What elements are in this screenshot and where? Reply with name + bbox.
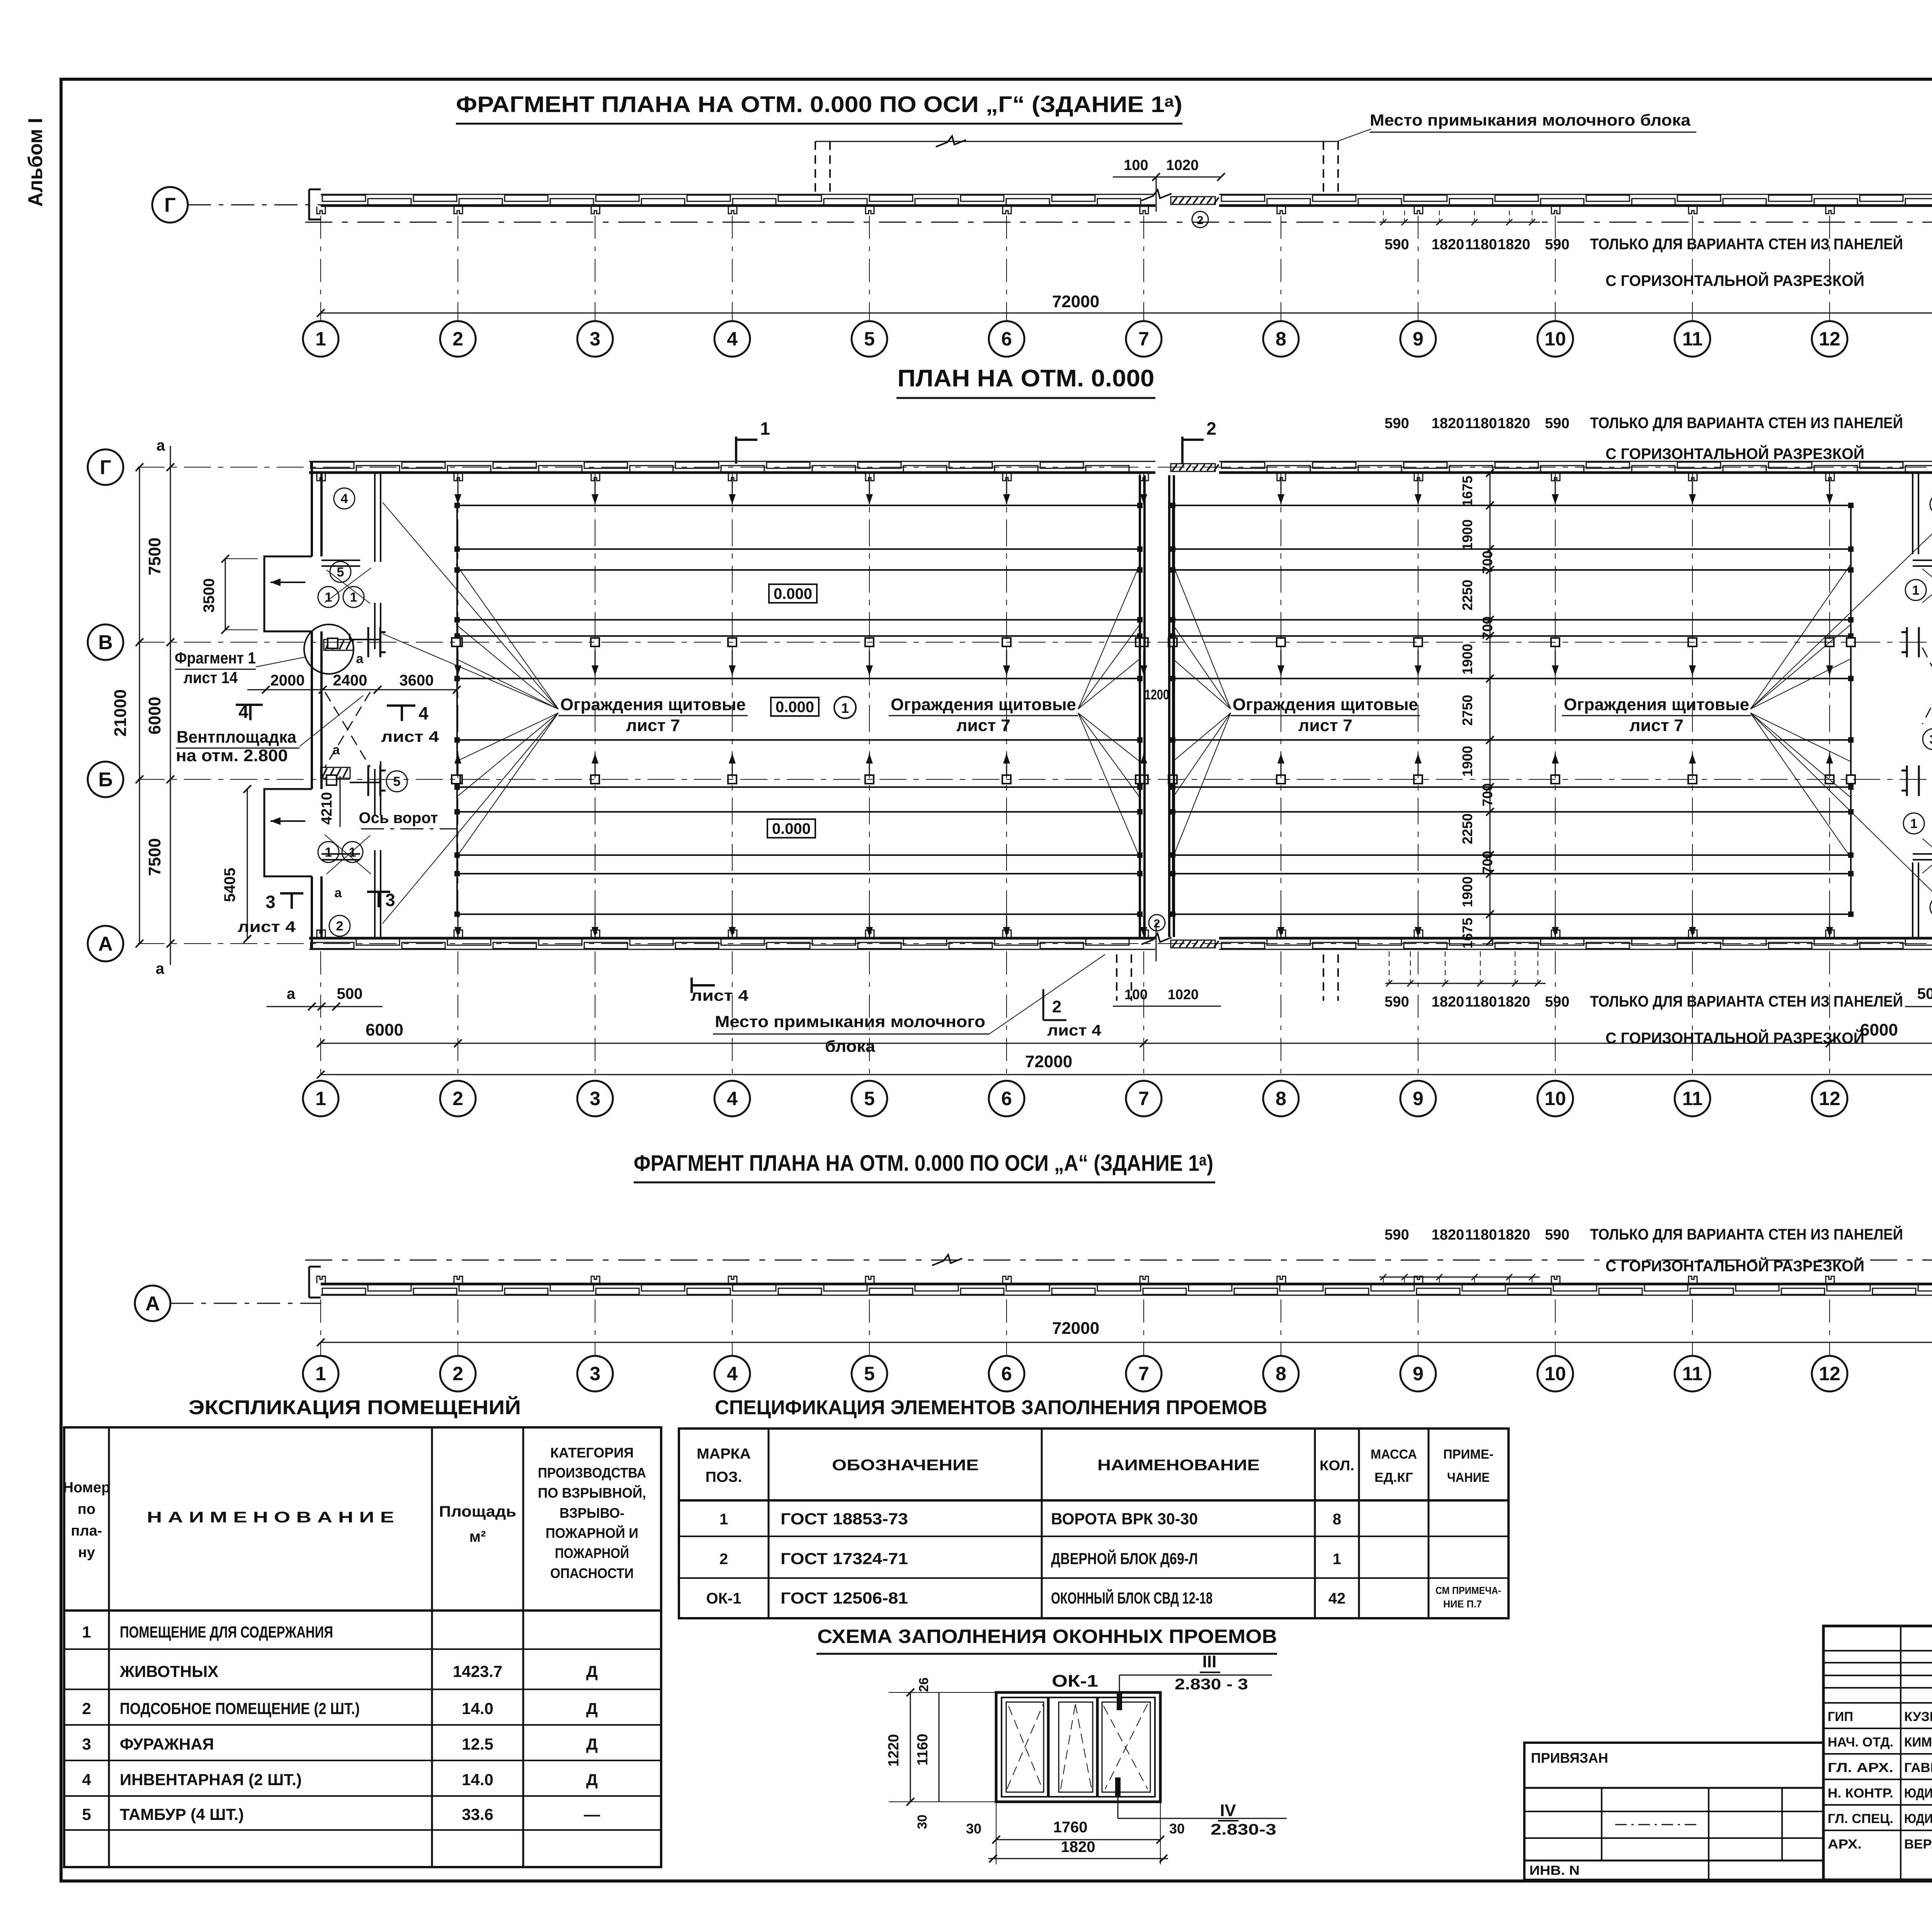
svg-text:1180: 1180 xyxy=(1465,994,1497,1010)
svg-text:НАИМЕНОВАНИЕ: НАИМЕНОВАНИЕ xyxy=(1097,1457,1260,1474)
svg-text:42: 42 xyxy=(1328,1590,1346,1607)
svg-text:1: 1 xyxy=(349,845,356,860)
svg-text:ПРИВЯЗАН: ПРИВЯЗАН xyxy=(1531,1750,1608,1766)
svg-text:1820: 1820 xyxy=(1498,1227,1531,1243)
svg-text:3: 3 xyxy=(1930,732,1932,747)
svg-text:12: 12 xyxy=(1819,328,1840,350)
svg-text:ПОЗ.: ПОЗ. xyxy=(706,1469,742,1485)
svg-text:1820: 1820 xyxy=(1498,994,1531,1010)
svg-text:6000: 6000 xyxy=(1860,1020,1898,1039)
svg-text:ФРАГМЕНТ ПЛАНА НА ОТМ. 0.000 П: ФРАГМЕНТ ПЛАНА НА ОТМ. 0.000 ПО ОСИ „Г“ … xyxy=(456,92,1182,117)
svg-text:1820: 1820 xyxy=(1432,994,1464,1010)
svg-text:4: 4 xyxy=(82,1770,91,1789)
svg-text:3600: 3600 xyxy=(400,672,434,689)
svg-text:1: 1 xyxy=(1910,816,1918,831)
svg-text:ЖИВОТНЫХ: ЖИВОТНЫХ xyxy=(119,1662,218,1680)
svg-text:ЕД.КГ: ЕД.КГ xyxy=(1374,1470,1413,1485)
svg-text:Ось ворот: Ось ворот xyxy=(359,810,438,827)
svg-text:5405: 5405 xyxy=(221,868,238,902)
svg-text:1900: 1900 xyxy=(1459,519,1475,550)
svg-text:700: 700 xyxy=(1480,551,1495,574)
svg-text:ТОЛЬКО ДЛЯ ВАРИАНТА СТЕН ИЗ ПА: ТОЛЬКО ДЛЯ ВАРИАНТА СТЕН ИЗ ПАНЕЛЕЙ xyxy=(1590,235,1903,253)
svg-text:пла-: пла- xyxy=(71,1523,102,1539)
svg-text:6000: 6000 xyxy=(145,697,164,735)
svg-text:2: 2 xyxy=(1154,917,1160,930)
svg-text:1760: 1760 xyxy=(1053,1819,1088,1836)
svg-text:АРХ.: АРХ. xyxy=(1828,1837,1862,1852)
svg-text:В: В xyxy=(98,631,113,654)
svg-text:ТОЛЬКО ДЛЯ ВАРИАНТА СТЕН ИЗ ПА: ТОЛЬКО ДЛЯ ВАРИАНТА СТЕН ИЗ ПАНЕЛЕЙ xyxy=(1590,1225,1903,1243)
svg-text:12: 12 xyxy=(1819,1088,1840,1109)
svg-text:500: 500 xyxy=(337,985,363,1002)
svg-text:6: 6 xyxy=(1001,1363,1012,1384)
svg-text:лист 7: лист 7 xyxy=(1629,716,1684,735)
svg-text:ПРИМЕ-: ПРИМЕ- xyxy=(1443,1447,1493,1462)
svg-text:ВЗРЫВО-: ВЗРЫВО- xyxy=(560,1505,624,1521)
svg-text:7: 7 xyxy=(1138,1363,1149,1384)
svg-text:Вентплощадка: Вентплощадка xyxy=(177,728,297,747)
svg-text:Н А И М Е Н О В А Н И Е: Н А И М Е Н О В А Н И Е xyxy=(147,1509,394,1526)
svg-text:КИМ: КИМ xyxy=(1904,1735,1932,1750)
svg-text:1: 1 xyxy=(315,1363,326,1384)
svg-text:лист 7: лист 7 xyxy=(1298,716,1352,735)
svg-text:2: 2 xyxy=(452,1088,463,1109)
svg-text:5: 5 xyxy=(337,565,344,580)
svg-text:72000: 72000 xyxy=(1052,1319,1099,1338)
svg-text:ЭКСПЛИКАЦИЯ ПОМЕЩЕНИЙ: ЭКСПЛИКАЦИЯ ПОМЕЩЕНИЙ xyxy=(189,1396,521,1419)
svg-text:5: 5 xyxy=(864,1363,875,1384)
svg-text:1675: 1675 xyxy=(1459,476,1475,507)
svg-text:11: 11 xyxy=(1682,1363,1703,1384)
svg-text:ОПАСНОСТИ: ОПАСНОСТИ xyxy=(550,1565,634,1581)
svg-text:0.000: 0.000 xyxy=(774,585,812,602)
svg-text:по: по xyxy=(78,1501,95,1517)
svg-text:590: 590 xyxy=(1545,1227,1569,1243)
svg-text:2250: 2250 xyxy=(1459,580,1475,611)
svg-text:30: 30 xyxy=(966,1821,981,1837)
svg-text:ФУРАЖНАЯ: ФУРАЖНАЯ xyxy=(120,1735,214,1753)
svg-text:ВОРОТА ВРК 30-30: ВОРОТА ВРК 30-30 xyxy=(1051,1510,1198,1528)
svg-text:а: а xyxy=(156,960,165,977)
svg-text:а: а xyxy=(335,886,342,900)
svg-text:7: 7 xyxy=(1138,328,1149,350)
svg-text:КАТЕГОРИЯ: КАТЕГОРИЯ xyxy=(550,1445,634,1461)
svg-text:33.6: 33.6 xyxy=(462,1805,493,1823)
svg-text:26: 26 xyxy=(917,1677,931,1692)
svg-text:2: 2 xyxy=(336,919,344,934)
svg-text:КУЗНЕЦОВ: КУЗНЕЦОВ xyxy=(1904,1709,1932,1724)
svg-text:1900: 1900 xyxy=(1459,876,1475,907)
svg-text:СПЕЦИФИКАЦИЯ ЭЛЕМЕНТОВ ЗАПОЛНЕ: СПЕЦИФИКАЦИЯ ЭЛЕМЕНТОВ ЗАПОЛНЕНИЯ ПРОЕМО… xyxy=(715,1396,1267,1419)
svg-text:700: 700 xyxy=(1480,783,1495,806)
svg-text:НИЕ П.7: НИЕ П.7 xyxy=(1443,1598,1482,1610)
svg-text:1: 1 xyxy=(760,418,770,439)
svg-text:10: 10 xyxy=(1544,1363,1566,1384)
svg-text:1180: 1180 xyxy=(1465,415,1497,432)
svg-text:КОЛ.: КОЛ. xyxy=(1320,1458,1354,1473)
svg-text:72000: 72000 xyxy=(1052,292,1099,311)
svg-text:1: 1 xyxy=(1912,583,1920,598)
svg-text:2.830-3: 2.830-3 xyxy=(1211,1821,1276,1838)
svg-text:4: 4 xyxy=(727,328,738,350)
svg-text:5: 5 xyxy=(864,328,875,350)
svg-text:3: 3 xyxy=(265,892,276,912)
svg-text:ЧАНИЕ: ЧАНИЕ xyxy=(1447,1470,1490,1485)
svg-text:590: 590 xyxy=(1384,415,1409,432)
svg-text:1: 1 xyxy=(315,328,326,350)
svg-text:700: 700 xyxy=(1480,616,1495,639)
svg-text:9: 9 xyxy=(1413,328,1423,350)
svg-text:ГОСТ 18853-73: ГОСТ 18853-73 xyxy=(781,1510,908,1528)
svg-text:Номер: Номер xyxy=(63,1480,111,1496)
svg-text:С ГОРИЗОНТАЛЬНОЙ РАЗРЕЗКОЙ: С ГОРИЗОНТАЛЬНОЙ РАЗРЕЗКОЙ xyxy=(1605,1029,1864,1047)
svg-text:ПОДСОБНОЕ ПОМЕЩЕНИЕ (2 ШТ.): ПОДСОБНОЕ ПОМЕЩЕНИЕ (2 ШТ.) xyxy=(120,1699,360,1718)
svg-text:1020: 1020 xyxy=(1168,986,1199,1002)
svg-text:а: а xyxy=(356,651,364,666)
svg-text:100: 100 xyxy=(1124,157,1148,173)
svg-text:СХЕМА ЗАПОЛНЕНИЯ ОКОННЫХ ПРОЕМ: СХЕМА ЗАПОЛНЕНИЯ ОКОННЫХ ПРОЕМОВ xyxy=(817,1626,1277,1647)
svg-text:5: 5 xyxy=(393,774,401,789)
svg-text:ТОЛЬКО ДЛЯ ВАРИАНТА СТЕН ИЗ ПА: ТОЛЬКО ДЛЯ ВАРИАНТА СТЕН ИЗ ПАНЕЛЕЙ xyxy=(1590,992,1903,1010)
svg-text:1820: 1820 xyxy=(1432,1227,1464,1243)
svg-text:ИНВ. N: ИНВ. N xyxy=(1529,1863,1580,1878)
svg-text:Фрагмент 1: Фрагмент 1 xyxy=(175,649,256,667)
svg-text:6: 6 xyxy=(1001,328,1012,350)
svg-text:лист 4: лист 4 xyxy=(381,728,439,745)
svg-text:8: 8 xyxy=(1276,328,1286,350)
svg-text:9: 9 xyxy=(1413,1363,1423,1384)
svg-text:а: а xyxy=(287,985,296,1002)
svg-text:6: 6 xyxy=(1001,1088,1012,1109)
svg-text:ну: ну xyxy=(78,1544,95,1561)
svg-text:4210: 4210 xyxy=(319,792,335,825)
svg-text:14.0: 14.0 xyxy=(462,1770,493,1789)
svg-text:8: 8 xyxy=(1276,1363,1286,1384)
svg-text:590: 590 xyxy=(1545,236,1569,253)
svg-text:ИНВЕНТАРНАЯ (2 ШТ.): ИНВЕНТАРНАЯ (2 ШТ.) xyxy=(120,1770,302,1789)
svg-text:12.5: 12.5 xyxy=(462,1735,493,1753)
svg-text:3: 3 xyxy=(590,1088,600,1109)
svg-text:1: 1 xyxy=(82,1623,91,1641)
svg-text:500: 500 xyxy=(1917,985,1932,1002)
svg-text:3: 3 xyxy=(590,328,600,350)
svg-text:А: А xyxy=(98,933,113,955)
svg-text:Д: Д xyxy=(586,1699,598,1718)
svg-text:1160: 1160 xyxy=(915,1734,931,1765)
svg-text:0.000: 0.000 xyxy=(772,820,811,837)
svg-text:8: 8 xyxy=(1276,1088,1286,1109)
svg-text:С ГОРИЗОНТАЛЬНОЙ РАЗРЕЗКОЙ: С ГОРИЗОНТАЛЬНОЙ РАЗРЕЗКОЙ xyxy=(1605,272,1864,289)
svg-text:СМ ПРИМЕЧА-: СМ ПРИМЕЧА- xyxy=(1435,1585,1501,1596)
svg-text:ТАМБУР (4 ШТ.): ТАМБУР (4 ШТ.) xyxy=(120,1805,244,1823)
svg-text:ВЕРХОВСКИЙ: ВЕРХОВСКИЙ xyxy=(1904,1837,1932,1852)
svg-text:2: 2 xyxy=(1206,418,1216,439)
svg-text:лист 7: лист 7 xyxy=(956,716,1010,735)
svg-text:5: 5 xyxy=(864,1088,875,1109)
svg-text:7: 7 xyxy=(1138,1088,1149,1109)
svg-text:4: 4 xyxy=(727,1363,738,1384)
svg-text:30: 30 xyxy=(1169,1821,1185,1837)
svg-text:0.000: 0.000 xyxy=(776,699,814,716)
svg-text:ОКОННЫЙ БЛОК СВД 12-18: ОКОННЫЙ БЛОК СВД 12-18 xyxy=(1051,1588,1213,1607)
svg-text:ПОМЕЩЕНИЕ ДЛЯ СОДЕРЖАНИЯ: ПОМЕЩЕНИЕ ДЛЯ СОДЕРЖАНИЯ xyxy=(120,1623,333,1641)
svg-text:ОБОЗНАЧЕНИЕ: ОБОЗНАЧЕНИЕ xyxy=(832,1457,979,1474)
svg-text:лист 14: лист 14 xyxy=(184,668,238,687)
svg-text:4: 4 xyxy=(341,492,348,506)
svg-text:10: 10 xyxy=(1544,1088,1566,1109)
svg-text:2: 2 xyxy=(452,1363,463,1384)
svg-text:1820: 1820 xyxy=(1498,236,1531,253)
svg-text:2: 2 xyxy=(82,1699,91,1718)
svg-text:2400: 2400 xyxy=(333,672,367,689)
svg-text:лист 4: лист 4 xyxy=(690,987,749,1004)
svg-text:ПО ВЗРЫВНОЙ,: ПО ВЗРЫВНОЙ, xyxy=(538,1485,646,1501)
svg-text:1675: 1675 xyxy=(1459,918,1475,949)
svg-text:11: 11 xyxy=(1682,328,1703,350)
svg-text:ФРАГМЕНТ ПЛАНА НА ОТМ. 0.000 П: ФРАГМЕНТ ПЛАНА НА ОТМ. 0.000 ПО ОСИ „А“ … xyxy=(634,1151,1213,1176)
svg-text:а: а xyxy=(333,743,340,757)
svg-text:ДВЕРНОЙ БЛОК Д69-Л: ДВЕРНОЙ БЛОК Д69-Л xyxy=(1051,1549,1198,1568)
svg-text:Место примыкания молочного бло: Место примыкания молочного блока xyxy=(1370,111,1691,129)
svg-text:30: 30 xyxy=(915,1815,930,1829)
svg-text:1: 1 xyxy=(841,700,849,716)
svg-text:1: 1 xyxy=(719,1511,728,1528)
svg-text:1: 1 xyxy=(1333,1551,1341,1568)
svg-text:ПОЖАРНОЙ: ПОЖАРНОЙ xyxy=(555,1545,629,1561)
svg-text:1900: 1900 xyxy=(1459,746,1475,777)
svg-text:Ограждения щитовые: Ограждения щитовые xyxy=(560,695,746,714)
svg-text:м²: м² xyxy=(469,1528,486,1545)
svg-text:Ограждения щитовые: Ограждения щитовые xyxy=(1564,695,1749,714)
svg-text:8: 8 xyxy=(1333,1511,1341,1528)
svg-text:ГЛ. АРХ.: ГЛ. АРХ. xyxy=(1828,1760,1893,1775)
svg-text:—: — xyxy=(584,1805,600,1823)
svg-text:21000: 21000 xyxy=(111,689,130,736)
svg-text:III: III xyxy=(1202,1652,1217,1671)
svg-text:ГЛ. СПЕЦ.: ГЛ. СПЕЦ. xyxy=(1828,1811,1893,1826)
svg-text:1900: 1900 xyxy=(1459,644,1475,675)
svg-text:5: 5 xyxy=(82,1805,91,1823)
svg-text:блока: блока xyxy=(825,1037,876,1055)
svg-text:2: 2 xyxy=(1197,214,1204,227)
svg-text:7500: 7500 xyxy=(145,537,164,575)
svg-text:1: 1 xyxy=(325,845,332,860)
svg-text:ГОСТ 12506-81: ГОСТ 12506-81 xyxy=(781,1589,908,1607)
svg-text:Площадь: Площадь xyxy=(439,1503,516,1520)
svg-text:Место примыкания молочного: Место примыкания молочного xyxy=(715,1012,985,1031)
svg-text:1: 1 xyxy=(350,590,357,605)
svg-text:ОК-1: ОК-1 xyxy=(706,1590,741,1607)
svg-text:Г: Г xyxy=(164,194,175,216)
svg-text:14.0: 14.0 xyxy=(462,1699,493,1718)
svg-text:Альбом I: Альбом I xyxy=(24,118,47,207)
svg-text:1180: 1180 xyxy=(1465,236,1497,253)
svg-text:НАЧ. ОТД.: НАЧ. ОТД. xyxy=(1828,1735,1893,1750)
svg-text:ГАВРИЛОВ: ГАВРИЛОВ xyxy=(1904,1760,1932,1775)
svg-text:лист 4: лист 4 xyxy=(238,918,296,935)
svg-text:ПОЖАРНОЙ И: ПОЖАРНОЙ И xyxy=(546,1525,638,1541)
svg-text:а: а xyxy=(156,437,165,454)
svg-text:Ограждения щитовые: Ограждения щитовые xyxy=(1233,695,1418,714)
svg-text:ЮДИН: ЮДИН xyxy=(1904,1811,1932,1826)
svg-text:Б: Б xyxy=(98,769,112,791)
svg-text:Н. КОНТР.: Н. КОНТР. xyxy=(1828,1786,1893,1801)
svg-text:2750: 2750 xyxy=(1459,695,1475,726)
svg-text:590: 590 xyxy=(1545,994,1569,1010)
svg-text:ПРОИЗВОДСТВА: ПРОИЗВОДСТВА xyxy=(538,1465,646,1481)
svg-text:ГОСТ 17324-71: ГОСТ 17324-71 xyxy=(781,1549,908,1568)
svg-text:лист 7: лист 7 xyxy=(626,716,680,735)
svg-text:Ограждения щитовые: Ограждения щитовые xyxy=(891,695,1076,714)
svg-text:4: 4 xyxy=(727,1088,738,1109)
svg-text:А: А xyxy=(145,1293,160,1315)
svg-text:1820: 1820 xyxy=(1432,415,1464,432)
svg-text:11: 11 xyxy=(1682,1088,1703,1109)
svg-text:12: 12 xyxy=(1819,1363,1840,1384)
svg-text:1220: 1220 xyxy=(886,1734,902,1767)
svg-text:2: 2 xyxy=(1052,997,1061,1016)
svg-text:ТОЛЬКО ДЛЯ ВАРИАНТА СТЕН ИЗ ПА: ТОЛЬКО ДЛЯ ВАРИАНТА СТЕН ИЗ ПАНЕЛЕЙ xyxy=(1590,414,1903,432)
svg-text:1: 1 xyxy=(315,1088,326,1109)
svg-text:1: 1 xyxy=(325,590,332,605)
svg-text:7500: 7500 xyxy=(145,838,164,876)
svg-text:4: 4 xyxy=(418,703,429,723)
svg-text:100: 100 xyxy=(1124,986,1148,1002)
svg-text:МАССА: МАССА xyxy=(1371,1447,1417,1462)
svg-text:3: 3 xyxy=(590,1363,600,1384)
svg-text:Д: Д xyxy=(586,1662,598,1680)
svg-text:1020: 1020 xyxy=(1166,157,1199,173)
svg-text:2: 2 xyxy=(452,328,463,350)
svg-text:2: 2 xyxy=(719,1551,728,1568)
svg-text:1423.7: 1423.7 xyxy=(453,1662,502,1680)
svg-text:IV: IV xyxy=(1220,1801,1236,1820)
svg-text:3500: 3500 xyxy=(201,578,218,613)
svg-text:3: 3 xyxy=(82,1735,91,1753)
svg-text:2000: 2000 xyxy=(270,672,305,689)
svg-text:ГИП: ГИП xyxy=(1828,1709,1853,1724)
svg-text:1820: 1820 xyxy=(1498,415,1531,432)
svg-text:Д: Д xyxy=(586,1770,598,1789)
svg-text:С ГОРИЗОНТАЛЬНОЙ РАЗРЕЗКОЙ: С ГОРИЗОНТАЛЬНОЙ РАЗРЕЗКОЙ xyxy=(1605,445,1864,463)
svg-text:1820: 1820 xyxy=(1432,236,1464,253)
svg-text:ОК-1: ОК-1 xyxy=(1052,1672,1098,1690)
svg-text:1820: 1820 xyxy=(1061,1838,1095,1855)
svg-text:ПЛАН НА ОТМ. 0.000: ПЛАН НА ОТМ. 0.000 xyxy=(898,365,1155,392)
svg-text:Г: Г xyxy=(100,456,111,479)
svg-text:10: 10 xyxy=(1544,328,1566,350)
svg-text:2.830 - 3: 2.830 - 3 xyxy=(1175,1676,1248,1693)
svg-text:590: 590 xyxy=(1384,236,1409,253)
svg-text:ЮДИН: ЮДИН xyxy=(1904,1786,1932,1801)
svg-text:лист 4: лист 4 xyxy=(1047,1022,1102,1039)
svg-text:1180: 1180 xyxy=(1465,1227,1497,1243)
svg-text:1200: 1200 xyxy=(1145,687,1169,702)
svg-text:на отм. 2.800: на отм. 2.800 xyxy=(176,746,288,765)
svg-text:МАРКА: МАРКА xyxy=(697,1446,751,1462)
svg-text:590: 590 xyxy=(1545,415,1569,432)
svg-text:72000: 72000 xyxy=(1025,1052,1072,1071)
svg-text:9: 9 xyxy=(1413,1088,1423,1109)
svg-text:590: 590 xyxy=(1384,994,1409,1010)
svg-text:6000: 6000 xyxy=(366,1020,403,1039)
svg-text:Д: Д xyxy=(586,1735,598,1753)
svg-text:590: 590 xyxy=(1384,1227,1409,1243)
svg-text:2250: 2250 xyxy=(1459,813,1475,844)
